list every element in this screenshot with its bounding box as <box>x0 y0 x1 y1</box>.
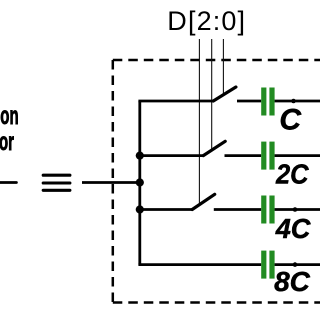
dashed boundary box : left edge <box>112 60 115 303</box>
capacitor 4C plates <box>261 196 274 224</box>
wire: row1 left segment <box>138 100 213 103</box>
svg-text:4C: 4C <box>275 213 312 244</box>
equivalence symbol (triple bar) <box>43 175 70 190</box>
switch S1 arm <box>213 87 236 101</box>
wire: vertical bus <box>138 101 141 265</box>
wire: row1 right segment to capacitor <box>237 100 261 103</box>
wire: row3 left segment <box>138 208 192 211</box>
capacitor C (unit) plates <box>261 88 274 116</box>
node: junction row2 <box>136 152 144 160</box>
wire: row2 right segment to capacitor <box>225 154 262 157</box>
dashed boundary box (capacitor bank) : top edge <box>113 59 320 62</box>
svg-text:C: C <box>279 104 302 137</box>
svg-text:or: or <box>0 128 14 156</box>
switch S2 arm <box>203 141 225 155</box>
svg-text:D[2:0]: D[2:0] <box>167 6 246 36</box>
wire: left input stub <box>0 181 16 184</box>
control line D1 (to switch S2) <box>211 39 213 150</box>
capacitor 8C plates <box>261 251 274 279</box>
wire: input lead into box <box>82 181 141 184</box>
wire: row4 output segment <box>275 263 320 266</box>
node: input junction <box>136 178 144 186</box>
dashed boundary box : bottom edge <box>113 301 320 304</box>
capacitor 2C plates <box>261 142 274 170</box>
node: row3 right dot <box>293 207 298 212</box>
node: row1 right dot <box>291 99 296 104</box>
svg-text:on: on <box>0 102 18 130</box>
wire: row2 output segment <box>275 154 320 157</box>
svg-text:8C: 8C <box>274 266 311 297</box>
wire: row1 output segment <box>275 100 320 103</box>
node: junction row3 <box>136 205 144 213</box>
wire: row4 segment (no switch) <box>138 263 261 266</box>
wire: row2 left segment <box>138 154 203 157</box>
control line D0 (to switch S3) <box>198 39 200 205</box>
switch S3 arm <box>192 194 215 209</box>
wire: row3 right segment to capacitor <box>214 208 261 211</box>
svg-text:2C: 2C <box>275 158 309 189</box>
control line D2 (to switch S1) <box>222 39 224 96</box>
node: row4 right dot <box>293 262 298 267</box>
wire: row3 output segment <box>275 208 320 211</box>
